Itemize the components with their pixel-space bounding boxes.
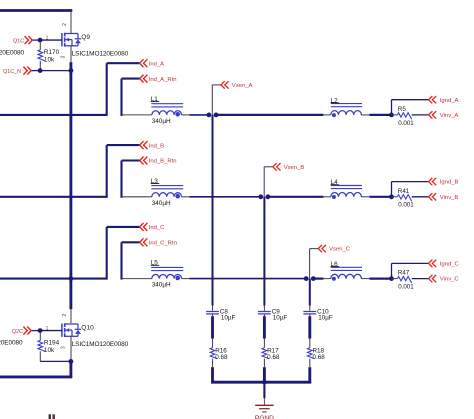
svg-text:PGND: PGND — [255, 415, 274, 419]
inductor L6 right pin — [361, 278, 370, 280]
wire Ind_A horizontal — [107, 62, 140, 64]
node phase A junction left — [207, 113, 212, 118]
partial text bottom edge — [49, 414, 55, 419]
node phase C junction right — [311, 276, 316, 281]
port Ind_B_Rtn — [140, 157, 177, 165]
svg-text:LSIC1MO120E0080: LSIC1MO120E0080 — [72, 341, 129, 348]
svg-text:0.001: 0.001 — [398, 202, 414, 209]
svg-text:0.001: 0.001 — [398, 120, 414, 127]
inductor L2 — [331, 104, 362, 118]
node Q1C_N junction — [38, 68, 43, 73]
node phase C junction left — [304, 276, 309, 281]
wire phase-leg bus — [69, 62, 72, 309]
wire R194 bottom — [40, 360, 71, 362]
wire gate Q10 — [40, 330, 62, 332]
wire Ind_B_Rtn horizontal — [122, 159, 140, 161]
wire C8 to R16 — [211, 316, 214, 338]
node R47 junction — [389, 276, 394, 281]
R17 designator — [267, 348, 279, 355]
PGND label — [255, 415, 274, 419]
svg-text:Vsen_C: Vsen_C — [329, 247, 351, 253]
wire Ind_A_Rtn riser — [120, 79, 122, 116]
Q10 source pin — [70, 336, 72, 361]
wire PGND stem — [263, 383, 265, 398]
Q10 part number label — [72, 341, 129, 348]
C8 value 10uF — [221, 315, 236, 322]
wire phase A to L2 — [216, 114, 323, 116]
svg-text:Ignd_C: Ignd_C — [440, 262, 460, 268]
resistor R16 bottom pin — [212, 359, 214, 368]
port Ind_A — [140, 59, 164, 67]
port Vsen_C — [318, 245, 351, 253]
R170 value 10k — [44, 56, 55, 63]
wire phase B to L4 — [268, 196, 324, 198]
L3 value 340uH — [152, 200, 171, 207]
svg-text:340µH: 340µH — [152, 118, 171, 125]
L1 value 340uH — [152, 118, 171, 125]
Q9 drain pin — [70, 12, 72, 34]
resistor R170 — [38, 42, 45, 70]
Q10 pin 1 number — [46, 326, 49, 332]
Q9 source pin — [70, 46, 72, 63]
R5 designator — [398, 106, 406, 113]
resistor R194 — [38, 332, 45, 361]
svg-text:R194: R194 — [44, 339, 60, 346]
wire phase C to L6 — [313, 278, 323, 280]
sense line Vsen_A — [212, 85, 221, 115]
inductor L5 right pin — [182, 278, 190, 280]
R194 designator — [44, 339, 60, 346]
port Vinv_A — [429, 111, 459, 119]
C10 value 10uF — [318, 315, 333, 322]
wire leg to rail — [69, 361, 72, 377]
sense line Vsen_B — [264, 167, 273, 197]
wire L3 to junction — [190, 196, 261, 198]
svg-text:R41: R41 — [398, 188, 410, 195]
resistor R41 — [392, 195, 429, 202]
partial part-number text left edge top — [0, 50, 24, 57]
port Ignd_A — [429, 96, 459, 104]
capacitor C10 top pin — [309, 306, 311, 311]
capacitor C9 top pin — [263, 306, 265, 311]
transistor Q9 — [62, 33, 81, 47]
inductor L4 right pin — [361, 196, 370, 198]
inductor L1 right pin — [182, 114, 190, 116]
R5 value 0.001 — [398, 120, 414, 127]
svg-text:R47: R47 — [398, 270, 410, 277]
Q9 part number label — [72, 50, 129, 57]
R47 designator — [398, 270, 410, 277]
wire top DC bus — [0, 9, 72, 12]
svg-text:Q1C: Q1C — [13, 38, 24, 44]
Q10 drain pin — [70, 309, 72, 323]
resistor R17 bottom pin — [263, 359, 265, 368]
capacitor C8 — [206, 312, 219, 314]
port Vsen_B — [273, 163, 305, 171]
wire L4 to sense resistor — [370, 196, 392, 198]
node phase B junction right — [266, 194, 271, 199]
inductor L3 left pin — [123, 196, 152, 198]
svg-text:Ind_C_Rtn: Ind_C_Rtn — [149, 241, 177, 247]
svg-text:Ind_B: Ind_B — [149, 143, 164, 149]
svg-text:Vinv_C: Vinv_C — [440, 277, 460, 283]
node leg to phase C row — [69, 276, 74, 281]
inductor L5 — [151, 267, 183, 280]
svg-text:R5: R5 — [398, 106, 406, 113]
wire Ind_B_Rtn riser — [120, 161, 122, 198]
svg-text:340µH: 340µH — [152, 282, 171, 289]
wire L2 to sense resistor — [370, 114, 392, 116]
wire R16 to ground bus — [211, 367, 214, 383]
R41 designator — [398, 188, 410, 195]
capacitor C8 top pin — [212, 306, 214, 311]
inductor L4 left pin — [323, 196, 330, 198]
Q9 pin 2 number — [62, 23, 68, 26]
node phase B junction left — [258, 194, 263, 199]
port Vinv_C — [429, 275, 460, 283]
svg-text:Ignd_B: Ignd_B — [440, 180, 459, 186]
svg-text:LSIC1MO120E0080: LSIC1MO120E0080 — [72, 50, 129, 57]
wire phase C to capacitor C10 — [309, 279, 311, 306]
inductor L3 — [151, 186, 183, 199]
port Vsen_A — [221, 81, 253, 89]
svg-text:10k: 10k — [44, 56, 55, 63]
resistor R16 — [210, 348, 217, 359]
svg-text:LSIC1MO120E0080: LSIC1MO120E0080 — [0, 50, 24, 57]
svg-text:0.68: 0.68 — [313, 354, 326, 361]
Q9 pin 3 number — [61, 56, 67, 59]
svg-text:0.001: 0.001 — [398, 284, 414, 291]
svg-text:10µF: 10µF — [221, 315, 236, 322]
svg-text:Ind_C: Ind_C — [149, 225, 165, 231]
port Ignd_C — [429, 260, 460, 268]
capacitor C10 bottom pin — [309, 314, 311, 316]
svg-text:Q10: Q10 — [81, 325, 94, 332]
port Vinv_B — [429, 193, 459, 201]
port Ind_C — [140, 223, 165, 231]
svg-text:2: 2 — [62, 23, 68, 26]
R41 value 0.001 — [398, 202, 414, 209]
svg-text:Ind_A: Ind_A — [149, 61, 164, 67]
svg-text:3: 3 — [61, 346, 67, 349]
resistor R18 top pin — [309, 339, 311, 348]
partial part-number text left edge bottom — [0, 340, 23, 347]
resistor R47 — [392, 276, 429, 283]
wire Ind_C riser — [106, 227, 108, 280]
sense line Vsen_C — [310, 249, 319, 279]
L5 designator — [151, 260, 160, 267]
inductor L6 left pin — [323, 278, 330, 280]
port Ind_C_Rtn — [140, 238, 177, 246]
wire L1 to junction — [190, 114, 209, 116]
node R5 junction — [389, 113, 394, 118]
wire Ind_A riser — [106, 63, 108, 116]
wire L5 to junction — [190, 278, 307, 280]
node source Q10 junction — [69, 359, 74, 364]
R170 designator — [44, 49, 60, 56]
wire R17 to ground bus — [263, 367, 266, 383]
R16 designator — [215, 348, 227, 355]
svg-text:10k: 10k — [44, 347, 55, 354]
R18 value 0.68 — [313, 354, 326, 361]
L6 designator — [331, 261, 340, 268]
inductor L5 left pin — [123, 278, 152, 280]
wire Ignd_A — [392, 100, 429, 115]
inductor L2 left pin — [323, 114, 330, 116]
wire gate Q9 — [40, 39, 62, 41]
R47 value 0.001 — [398, 284, 414, 291]
svg-text:Q1C_N: Q1C_N — [3, 69, 21, 75]
svg-text:Ignd_A: Ignd_A — [440, 98, 459, 104]
C10 designator — [317, 308, 329, 315]
svg-text:2: 2 — [62, 314, 68, 317]
wire Ind_B riser — [106, 145, 108, 198]
C9 designator — [272, 308, 281, 315]
resistor R17 top pin — [263, 339, 265, 348]
svg-text:R170: R170 — [44, 49, 60, 56]
wire R18 to ground bus — [308, 367, 311, 383]
capacitor C9 bottom pin — [263, 314, 265, 316]
wire Ind_A_Rtn horizontal — [122, 78, 140, 80]
R194 value 10k — [44, 347, 55, 354]
svg-text:0.68: 0.68 — [215, 354, 228, 361]
port Ind_B — [140, 141, 164, 149]
wire phase A row left — [0, 114, 107, 116]
capacitor C8 bottom pin — [212, 314, 214, 316]
svg-text:Vsen_A: Vsen_A — [232, 83, 253, 89]
wire Ind_B horizontal — [107, 144, 140, 146]
node gate Q10 — [38, 328, 43, 333]
wire phase A to capacitor C8 — [212, 115, 214, 306]
Q10 pin 3 number — [61, 346, 67, 349]
inductor L3 right pin — [182, 196, 190, 198]
svg-text:3: 3 — [61, 56, 67, 59]
svg-text:Ind_A_Rtn: Ind_A_Rtn — [149, 77, 177, 83]
svg-text:0.68: 0.68 — [267, 354, 280, 361]
port Ignd_B — [429, 178, 459, 186]
inductor L2 right pin — [361, 114, 370, 116]
wire phase B to capacitor C9 — [263, 197, 265, 306]
wire L6 to sense resistor — [370, 278, 392, 280]
resistor R18 bottom pin — [309, 359, 311, 368]
wire ground bus — [211, 381, 311, 384]
node source Q9 junction — [69, 68, 74, 73]
node phase A junction right — [214, 113, 219, 118]
wire Ind_C_Rtn riser — [120, 242, 122, 279]
wire phase C row left — [0, 278, 107, 280]
capacitor C10 — [303, 312, 316, 314]
resistor R18 — [308, 348, 315, 359]
C9 value 10uF — [273, 315, 288, 322]
resistor R16 top pin — [212, 339, 214, 348]
port Q1C — [13, 36, 32, 44]
wire bottom-left rail — [0, 375, 72, 378]
svg-text:Vinv_A: Vinv_A — [440, 113, 459, 119]
wire Q2C to gate — [32, 330, 40, 332]
R16 value 0.68 — [215, 354, 228, 361]
L3 designator — [151, 178, 160, 185]
L4 designator — [331, 179, 340, 186]
wire Ignd_B — [392, 182, 429, 197]
wire Q1C_N — [32, 70, 71, 72]
svg-text:LSIC1MO120E0080: LSIC1MO120E0080 — [0, 340, 23, 347]
wire Q1C to gate — [33, 39, 40, 41]
wire C9 to R17 — [263, 316, 266, 338]
resistor R5 — [392, 113, 429, 120]
wire Ind_C horizontal — [107, 226, 140, 228]
wire Ignd_C — [392, 263, 429, 278]
L5 value 340uH — [152, 282, 171, 289]
inductor L1 left pin — [123, 114, 152, 116]
svg-text:340µH: 340µH — [152, 200, 171, 207]
C8 designator — [220, 308, 229, 315]
node gate Q9 — [38, 38, 43, 43]
port Q1C_N — [3, 67, 31, 76]
port Ind_A_Rtn — [140, 75, 177, 83]
svg-text:Q9: Q9 — [81, 34, 90, 41]
Q9 pin 1 number — [46, 35, 49, 41]
wire C10 to R18 — [308, 316, 311, 338]
R17 value 0.68 — [267, 354, 280, 361]
svg-text:10µF: 10µF — [318, 315, 333, 322]
resistor R17 — [262, 348, 269, 359]
svg-text:Q2C: Q2C — [12, 329, 23, 335]
svg-text:Vinv_B: Vinv_B — [440, 195, 459, 201]
inductor L4 — [331, 186, 362, 200]
R18 designator — [313, 348, 325, 355]
inductor L1 — [151, 104, 183, 117]
inductor L6 — [331, 267, 362, 281]
svg-text:Vsen_B: Vsen_B — [284, 165, 305, 171]
wire phase B row left — [0, 196, 107, 198]
L1 designator — [151, 96, 160, 103]
L2 designator — [331, 97, 340, 104]
Q10 pin 2 number — [62, 314, 68, 317]
transistor Q10 — [62, 323, 81, 337]
capacitor C9 — [258, 312, 271, 314]
svg-text:10µF: 10µF — [273, 315, 288, 322]
wire Ind_C_Rtn horizontal — [122, 241, 140, 243]
node ground bus junction — [262, 380, 267, 385]
svg-text:Ind_B_Rtn: Ind_B_Rtn — [149, 159, 177, 165]
Q10 designator — [81, 325, 94, 332]
port Q2C — [12, 327, 31, 335]
Q9 designator — [81, 34, 90, 41]
ground PGND — [255, 398, 273, 412]
node R41 junction — [389, 194, 394, 199]
